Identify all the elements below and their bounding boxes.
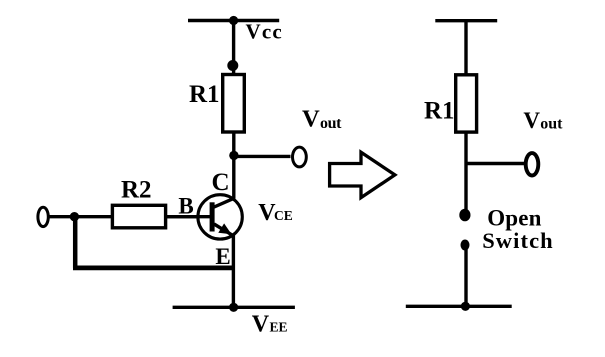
svg-text:R1: R1 <box>424 97 455 124</box>
svg-text:V: V <box>252 311 270 337</box>
svg-text:V: V <box>523 108 540 133</box>
svg-text:out: out <box>540 116 563 133</box>
svg-text:B: B <box>178 194 193 219</box>
svg-text:E: E <box>215 244 230 269</box>
svg-text:EE: EE <box>270 319 288 334</box>
svg-text:Open: Open <box>487 205 541 230</box>
svg-text:R1: R1 <box>189 81 220 108</box>
svg-text:C: C <box>212 169 230 196</box>
svg-text:Vcc: Vcc <box>246 20 283 44</box>
svg-text:V: V <box>302 106 320 133</box>
svg-text:Switch: Switch <box>482 228 554 253</box>
svg-text:out: out <box>320 115 342 132</box>
svg-text:R2: R2 <box>121 176 152 203</box>
svg-text:CE: CE <box>274 208 293 223</box>
